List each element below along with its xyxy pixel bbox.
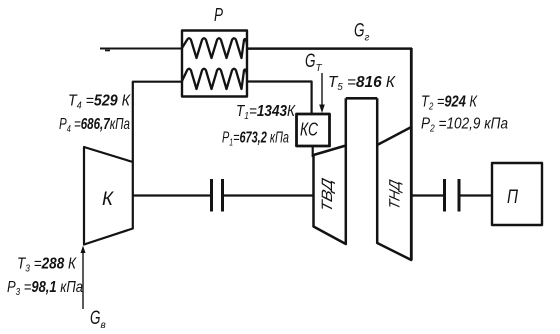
compressor К	[84, 147, 133, 245]
turbine ТВД	[314, 98, 346, 244]
regenerator Р box	[182, 31, 247, 97]
wire shaft К to coupling	[133, 194, 210, 196]
svg-text:Р3 =98,1 кПа: Р3 =98,1 кПа	[7, 279, 83, 298]
svg-text:Р1=673,2 кПа: Р1=673,2 кПа	[222, 130, 289, 149]
svg-text:Т1=1343К: Т1=1343К	[236, 103, 296, 122]
wire shaft coupling to П	[461, 194, 493, 196]
combustion chamber КС box	[297, 114, 330, 146]
wire regenerator to combustion chamber	[247, 82, 312, 115]
regenerator hot-side coil (top wave)	[182, 38, 247, 58]
svg-text:Т2 =924 К: Т2 =924 К	[421, 94, 478, 113]
wire exhaust outlet left	[100, 48, 182, 50]
wire shaft coupling to ТВД	[224, 194, 313, 196]
svg-text:ТВД: ТВД	[319, 176, 336, 214]
wire shaft ТНД to coupling	[412, 194, 443, 196]
turbine ТНД	[377, 98, 411, 260]
regenerator cold-side coil (bottom wave)	[182, 69, 247, 89]
wire КС to ТВД inlet	[312, 146, 314, 157]
coupling 1 bars	[212, 179, 223, 212]
wire hot gas Gг (riser to regenerator)	[247, 47, 412, 50]
wire air inlet with arrow	[82, 252, 84, 309]
svg-text:Т5 =816 К: Т5 =816 К	[328, 74, 397, 93]
wire Gг riser (ТНД exhaust up to top line)	[410, 48, 413, 126]
load П box	[492, 163, 542, 225]
svg-text:К: К	[102, 189, 115, 210]
svg-text:КС: КС	[300, 120, 319, 140]
svg-text:Р4 =686,7кПа: Р4 =686,7кПа	[59, 116, 130, 135]
svg-text:GТ: GТ	[305, 51, 323, 74]
svg-text:Gг: Gг	[354, 21, 370, 44]
svg-text:Р2 =102,9 кПа: Р2 =102,9 кПа	[421, 116, 508, 135]
svg-text:Т3 =288 К: Т3 =288 К	[17, 256, 77, 275]
wire duct ТВД to ТНД (cap)	[346, 97, 377, 100]
svg-text:П: П	[507, 187, 518, 208]
svg-text:Gв: Gв	[90, 308, 106, 331]
svg-text:Р: Р	[214, 5, 223, 25]
fuel arrow GТ into КС	[321, 73, 323, 106]
wire compressor discharge to regenerator	[133, 82, 182, 162]
svg-text:Т4 =529 К: Т4 =529 К	[68, 93, 131, 112]
coupling 2 bars	[445, 179, 460, 212]
svg-text:ТНД: ТНД	[387, 178, 404, 211]
